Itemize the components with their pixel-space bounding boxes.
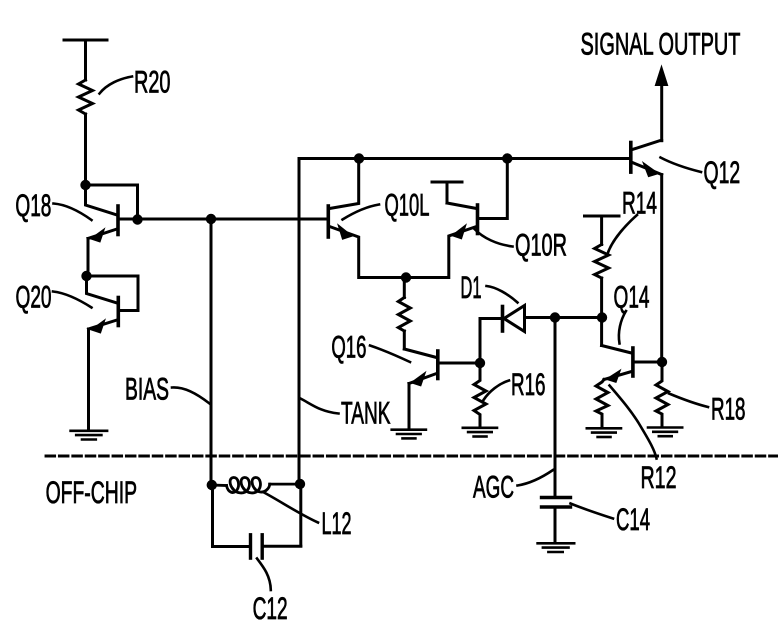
dashed chip boundary xyxy=(46,455,778,458)
transistor Q20 xyxy=(87,276,119,430)
terminal bar R14 top xyxy=(585,216,620,245)
terminal bar Q10R base xyxy=(432,182,462,203)
svg-text:Q16: Q16 xyxy=(331,329,366,365)
wire to tail resistor xyxy=(403,278,406,298)
node BIAS junction xyxy=(206,214,216,224)
wire TANK to C12 xyxy=(299,484,302,546)
svg-text:Q10L: Q10L xyxy=(385,187,430,223)
svg-text:L12: L12 xyxy=(322,505,352,541)
transistor Q10R xyxy=(406,159,507,278)
resistor R14 xyxy=(595,245,609,279)
wire to Q16 xyxy=(403,331,406,349)
node Q14 collector / R18 xyxy=(657,357,667,367)
node common emitters xyxy=(401,272,411,282)
node BIAS off-chip xyxy=(207,480,217,490)
wire AGC vertical xyxy=(554,318,557,498)
svg-text:C14: C14 xyxy=(616,501,650,537)
ground below Q16 xyxy=(392,430,426,439)
svg-text:R20: R20 xyxy=(134,64,171,100)
node rail Q10L collector xyxy=(354,153,364,163)
wire collector-base tie Q18 xyxy=(86,185,138,220)
transistor Q12 xyxy=(631,141,662,177)
leader AGC xyxy=(518,470,554,486)
resistor R20 xyxy=(79,80,93,114)
svg-text:Q18: Q18 xyxy=(15,187,51,223)
node Q16 base / R16 / D1 xyxy=(475,358,485,368)
leader R16 xyxy=(484,381,510,401)
svg-text:BIAS: BIAS xyxy=(125,370,169,406)
leader C14 xyxy=(571,504,614,519)
svg-text:R12: R12 xyxy=(641,459,677,495)
supply terminal bar top-left xyxy=(64,40,107,80)
arrow SIGNAL OUTPUT xyxy=(655,66,667,86)
wire TANK vertical xyxy=(298,159,301,485)
wire collector-base tie Q20 xyxy=(87,276,139,311)
ground below Q20 xyxy=(71,431,108,440)
transistor Q10L xyxy=(328,159,406,278)
svg-text:D1: D1 xyxy=(461,269,482,305)
svg-text:TANK: TANK xyxy=(341,395,391,431)
ground below R16 xyxy=(463,428,497,437)
resistor tail xyxy=(398,298,410,332)
node rail Q10R collector xyxy=(502,153,512,163)
svg-text:R18: R18 xyxy=(711,391,746,427)
ground below R12 xyxy=(587,428,621,437)
wire R20 to node xyxy=(84,114,87,185)
node base Q18 xyxy=(132,214,142,224)
transistor Q16 xyxy=(404,349,480,429)
diode D1 xyxy=(480,306,602,364)
leader Q10L xyxy=(343,205,380,220)
base wire Q18 to Q10L xyxy=(119,218,328,221)
svg-text:Q14: Q14 xyxy=(614,279,650,315)
node AGC junction xyxy=(550,312,560,322)
capacitor C14 xyxy=(542,498,571,543)
leader R14 xyxy=(607,215,637,256)
node at R20 bottom xyxy=(80,180,90,190)
svg-text:R14: R14 xyxy=(622,185,657,221)
svg-text:SIGNAL OUTPUT: SIGNAL OUTPUT xyxy=(581,26,741,62)
leader R12 xyxy=(610,386,657,459)
leader R18 xyxy=(669,394,708,408)
leader Q20 xyxy=(53,292,92,308)
leader R20 xyxy=(100,77,133,94)
resistor R16 xyxy=(474,363,486,427)
svg-text:Q12: Q12 xyxy=(704,154,741,190)
leader Q12 xyxy=(661,158,702,173)
svg-text:AGC: AGC xyxy=(473,469,514,505)
leader C12 xyxy=(257,559,271,591)
top rail xyxy=(299,157,631,160)
ground below R18 xyxy=(648,428,682,437)
svg-text:OFF-CHIP: OFF-CHIP xyxy=(46,474,137,510)
svg-text:Q10R: Q10R xyxy=(515,227,567,263)
resistor R18 xyxy=(656,362,668,427)
wire Q12 emitter down xyxy=(660,175,663,362)
svg-text:C12: C12 xyxy=(253,590,288,626)
capacitor C12 xyxy=(213,535,301,558)
resistor R12 xyxy=(596,380,608,428)
wire BIAS vertical xyxy=(210,219,213,485)
wire BIAS to C12 xyxy=(211,485,214,547)
wire R14 to node xyxy=(600,278,603,318)
ground below C14 xyxy=(538,543,575,552)
node R14 bottom junction xyxy=(597,312,607,322)
leader L12 xyxy=(264,493,318,523)
leader Q18 xyxy=(54,204,92,221)
wire node to Q14 xyxy=(600,318,603,346)
svg-text:Q20: Q20 xyxy=(16,279,52,315)
leader BIAS xyxy=(172,387,210,403)
svg-text:R16: R16 xyxy=(511,366,546,402)
node Q18 emitter / Q20 collector xyxy=(81,271,91,281)
leader Q16 xyxy=(370,346,410,363)
leader Q10R xyxy=(475,229,513,247)
leader D1 xyxy=(487,286,518,303)
wire collector Q12 up xyxy=(660,85,663,141)
transistor Q18 xyxy=(86,185,119,276)
leader Q14 xyxy=(619,311,626,344)
node TANK off-chip xyxy=(295,479,305,489)
inductor L12 xyxy=(212,477,300,492)
transistor Q14 xyxy=(602,346,663,383)
leader TANK xyxy=(301,399,339,414)
